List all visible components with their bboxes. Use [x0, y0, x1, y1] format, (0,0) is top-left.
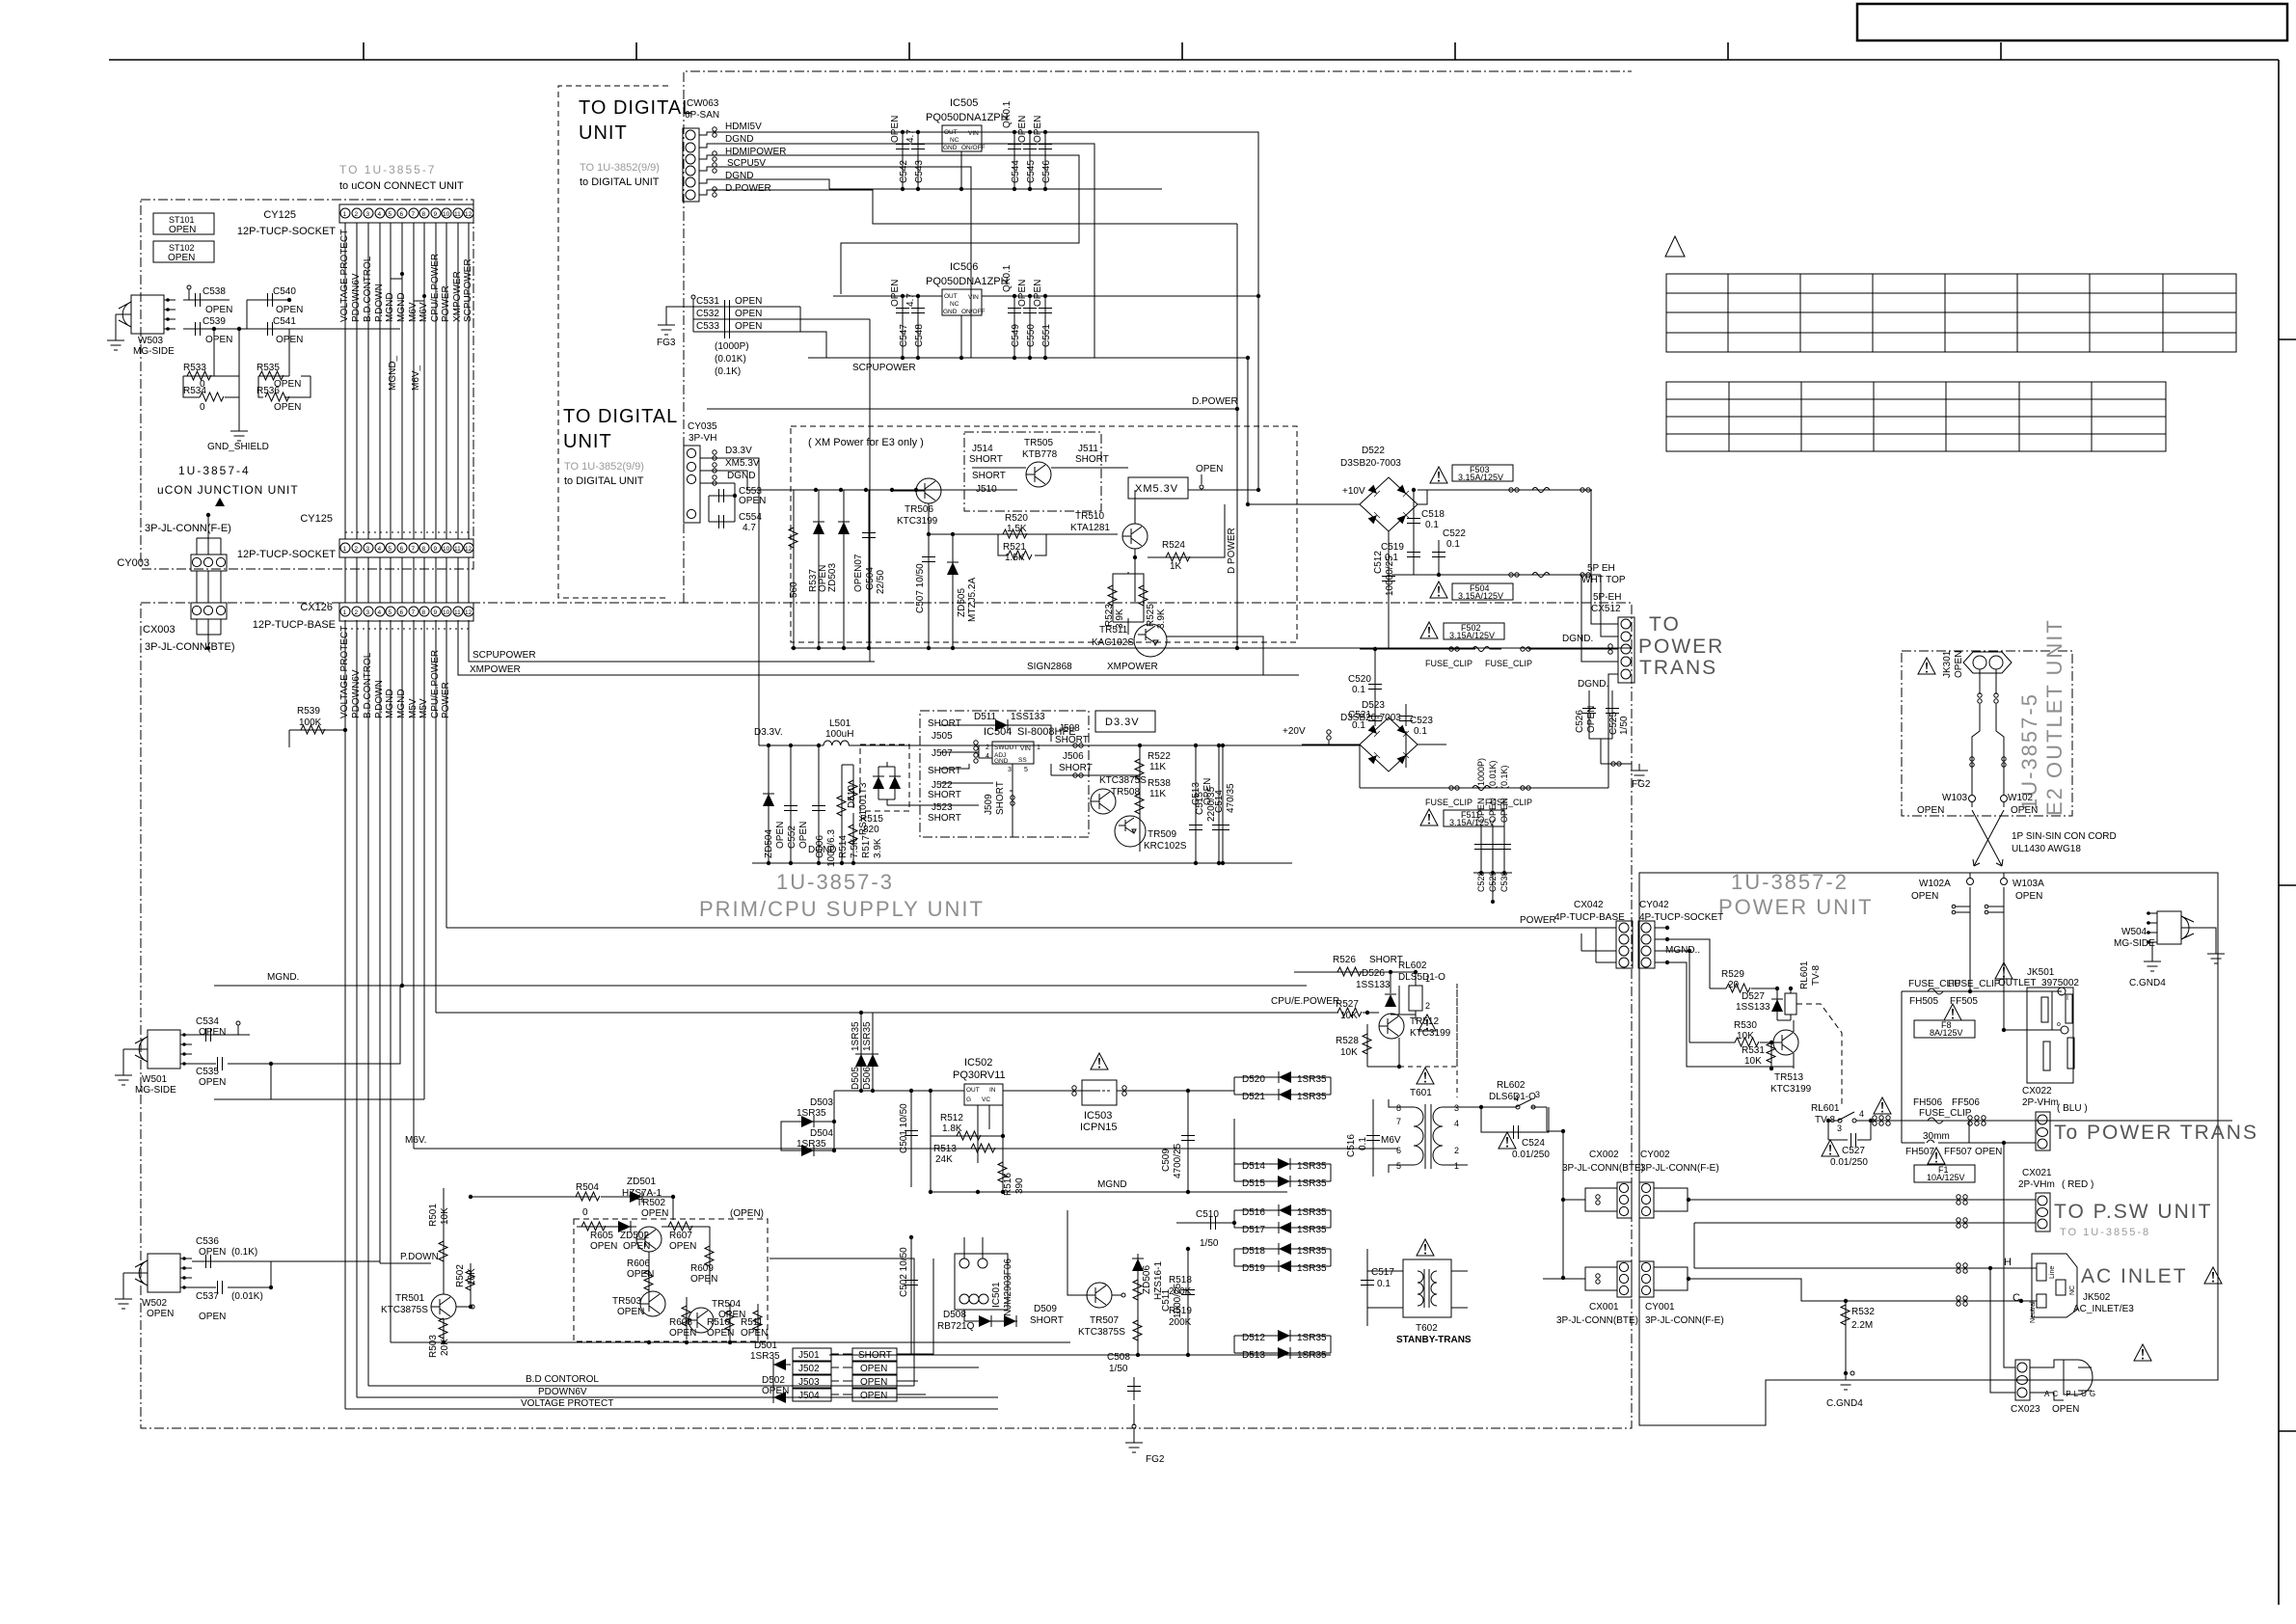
svg-text:1SR35: 1SR35: [851, 1021, 861, 1051]
wire MGND TR-cluster run: [391, 1341, 771, 1343]
svg-text:R530: R530: [1734, 1020, 1757, 1031]
svg-text:OPEN: OPEN: [274, 402, 301, 413]
wire HDMIPOWER row: [699, 155, 1079, 294]
svg-text:CPU/E.POWER: CPU/E.POWER: [1271, 996, 1339, 1007]
svg-text:GND: GND: [943, 145, 958, 151]
CX002 bracket wires: [1563, 1188, 1617, 1211]
boxed label D3.3V: [1095, 711, 1155, 732]
svg-text:(0.01K): (0.01K): [1488, 760, 1498, 789]
svg-text:30mm: 30mm: [1923, 1131, 1950, 1142]
connector CY125 top 12P-TUCP-SOCKET: [237, 204, 473, 237]
svg-text:6: 6: [1396, 1146, 1401, 1155]
svg-text:CY002: CY002: [1640, 1150, 1670, 1160]
fuse FH505 FF505 row: [1902, 990, 2062, 992]
svg-text:W102: W102: [2008, 793, 2034, 803]
svg-text:12: 12: [465, 546, 473, 553]
svg-text:OPEN: OPEN: [739, 496, 766, 506]
svg-text:HDMI5V: HDMI5V: [725, 122, 762, 132]
svg-text:Line: Line: [2049, 1266, 2056, 1279]
resistor R539 100K: [289, 730, 345, 747]
svg-text:VOLTAGE PROTECT: VOLTAGE PROTECT: [521, 1398, 613, 1409]
svg-text:CX022: CX022: [2022, 1086, 2052, 1096]
svg-text:C548: C548: [914, 324, 925, 347]
svg-text:4: 4: [1859, 1109, 1864, 1119]
AC inlet JK502: [2032, 1254, 2077, 1317]
svg-text:KAC102S: KAC102S: [1092, 637, 1134, 648]
svg-text:QK0.1: QK0.1: [1002, 264, 1013, 292]
svg-text:0.1: 0.1: [1352, 685, 1365, 695]
svg-text:OPEN: OPEN: [1499, 798, 1509, 823]
svg-text:R503: R503: [428, 1335, 439, 1358]
svg-text:GND: GND: [994, 758, 1009, 765]
svg-text:OPEN: OPEN: [1033, 116, 1043, 143]
regulator IC506: [926, 261, 1009, 358]
svg-text:OPEN: OPEN: [775, 822, 786, 849]
svg-text:C541: C541: [273, 316, 296, 327]
svg-text:RL602: RL602: [1497, 1080, 1526, 1091]
ground rail under IC505: [829, 188, 1162, 190]
svg-text:TR510: TR510: [1075, 511, 1104, 522]
svg-text:11: 11: [454, 211, 461, 218]
svg-text:MG-SIDE: MG-SIDE: [133, 346, 175, 357]
H wire to AC inlet: [1694, 1267, 2002, 1269]
svg-text:CX001: CX001: [1589, 1302, 1619, 1313]
svg-text:OUT: OUT: [966, 1087, 980, 1094]
svg-text:GND: GND: [943, 309, 958, 315]
svg-text:RL601: RL601: [1799, 961, 1810, 989]
svg-text:P.DOWN: P.DOWN: [400, 1252, 439, 1262]
connector pin numbers: [343, 211, 473, 218]
svg-text:OPEN: OPEN: [199, 1247, 226, 1258]
svg-text:8: 8: [422, 211, 426, 218]
fuse F1 10A/125V: [1928, 1148, 1945, 1164]
svg-text:1SR35: 1SR35: [1297, 1092, 1327, 1102]
svg-text:8A/125V: 8A/125V: [1930, 1028, 1963, 1038]
svg-text:TO: TO: [1649, 613, 1681, 636]
svg-text:( BLU ): ( BLU ): [2057, 1103, 2088, 1114]
svg-text:C533: C533: [696, 321, 719, 332]
resistor R536 OPEN: [258, 376, 311, 397]
svg-text:C524: C524: [1522, 1138, 1545, 1149]
svg-text:3.15A/125V: 3.15A/125V: [1449, 631, 1495, 640]
svg-text:POWER UNIT: POWER UNIT: [1718, 895, 1874, 919]
svg-text:1P SIN-SIN CON CORD: 1P SIN-SIN CON CORD: [2012, 831, 2117, 842]
svg-text:VIN: VIN: [968, 294, 979, 301]
svg-text:1U-3857-3: 1U-3857-3: [776, 870, 894, 894]
cap C524 0.01/250: [1499, 1132, 1516, 1149]
svg-text:IC504: IC504: [984, 726, 1012, 738]
svg-text:ICPN15: ICPN15: [1080, 1122, 1118, 1133]
svg-text:JK501: JK501: [2027, 967, 2055, 978]
svg-text:CPU/E.POWER: CPU/E.POWER: [430, 254, 441, 322]
svg-text:OPEN: OPEN: [860, 1377, 887, 1388]
svg-text:D503: D503: [810, 1097, 833, 1108]
svg-text:D511: D511: [974, 712, 997, 722]
svg-text:C523: C523: [1410, 716, 1433, 726]
svg-text:+20V: +20V: [1283, 726, 1306, 737]
svg-text:(OPEN): (OPEN): [730, 1208, 764, 1219]
svg-text:3P-VH: 3P-VH: [689, 433, 716, 444]
svg-text:(0.1K): (0.1K): [1499, 765, 1509, 789]
svg-text:R533: R533: [183, 363, 206, 373]
svg-text:RSX1001T3: RSX1001T3: [858, 782, 869, 835]
svg-text:UNIT: UNIT: [579, 122, 628, 144]
svg-text:KTC3875S: KTC3875S: [381, 1305, 428, 1315]
transistor TR511 KAC102S: [1134, 624, 1167, 657]
svg-text:J523: J523: [932, 802, 953, 813]
svg-text:390: 390: [1014, 1177, 1025, 1194]
svg-text:7: 7: [412, 546, 416, 553]
SIGN2868 / XMPOWER labels: [1106, 636, 1263, 675]
svg-text:C545: C545: [1026, 160, 1037, 183]
svg-text:TR505: TR505: [1024, 438, 1053, 448]
svg-text:SHORT: SHORT: [928, 718, 961, 729]
capacitor C541 OPEN: [268, 322, 273, 336]
page top border: [109, 59, 2279, 61]
svg-text:C540: C540: [273, 286, 296, 297]
svg-text:FUSE_CLIP: FUSE_CLIP: [1425, 798, 1472, 807]
wire B.D CONTOROL bottom run: [368, 1385, 914, 1387]
svg-text:TO 1U-3855-7: TO 1U-3855-7: [339, 163, 436, 176]
svg-text:TR509: TR509: [1148, 829, 1176, 840]
svg-text:TR513: TR513: [1774, 1072, 1803, 1083]
jj on rail: [1327, 730, 1331, 740]
connector pin numbers: [343, 546, 473, 553]
svg-text:M6V: M6V: [408, 302, 419, 322]
svg-text:D526: D526: [1362, 968, 1385, 979]
svg-text:10K: 10K: [1744, 1056, 1762, 1067]
svg-text:J502: J502: [798, 1364, 820, 1374]
svg-text:OPEN: OPEN: [860, 1391, 887, 1401]
svg-text:OPEN: OPEN: [2011, 805, 2038, 816]
dashed box D510 RSX1001T3: [860, 744, 909, 811]
svg-text:CX023: CX023: [2011, 1404, 2040, 1415]
svg-text:MTZJ5.2A: MTZJ5.2A: [967, 578, 978, 622]
svg-text:FUSE_CLIP: FUSE_CLIP: [1485, 659, 1532, 668]
wire into CX022 pin2: [1969, 1142, 2036, 1144]
svg-text:TO DIGITAL: TO DIGITAL: [563, 406, 678, 427]
svg-text:D510: D510: [847, 785, 857, 808]
wire XM5.3V from CY035: [700, 471, 791, 490]
svg-text:P.DOWN: P.DOWN: [374, 284, 385, 322]
svg-text:OPEN: OPEN: [735, 321, 762, 332]
capacitors C547 C548: [903, 296, 918, 358]
svg-text:OPEN: OPEN: [1488, 798, 1498, 823]
capacitors C544 C545 C546: [1014, 132, 1045, 189]
svg-text:J514: J514: [972, 444, 993, 454]
svg-text:DGND.: DGND.: [1578, 679, 1608, 690]
svg-text:TR501: TR501: [395, 1293, 424, 1304]
svg-text:(0.01K): (0.01K): [715, 354, 746, 365]
svg-text:R522: R522: [1148, 751, 1171, 762]
long bus drops from CX126: [345, 620, 446, 1409]
svg-text:7: 7: [1396, 1117, 1401, 1126]
svg-text:J505: J505: [932, 731, 953, 742]
wire MGND rail: [214, 985, 1307, 987]
svg-text:WHT TOP: WHT TOP: [1581, 575, 1626, 585]
svg-text:C536: C536: [196, 1236, 219, 1247]
left vertical link: [1562, 1131, 1564, 1280]
svg-text:3P-JL-CONN(BTE): 3P-JL-CONN(BTE): [145, 641, 235, 653]
svg-text:OPEN: OPEN: [590, 1241, 617, 1252]
svg-text:OPEN: OPEN: [168, 253, 195, 263]
svg-text:XM5.3V: XM5.3V: [725, 458, 760, 469]
wire bus 12 lines uCON: [345, 223, 469, 539]
svg-text:KTC3875S: KTC3875S: [1078, 1327, 1125, 1338]
svg-text:0.1: 0.1: [1385, 553, 1398, 563]
svg-text:OPEN: OPEN: [1911, 891, 1938, 902]
svg-text:KTC3199: KTC3199: [1770, 1084, 1812, 1095]
svg-text:DGND: DGND: [808, 845, 836, 855]
connector CX126 12P-TUCP-BASE: [253, 602, 473, 631]
capacitor C519 0.1 / C522 0.1: [1407, 553, 1420, 557]
svg-text:B.D.CONTROL: B.D.CONTROL: [363, 256, 373, 322]
svg-text:0.1: 0.1: [1414, 726, 1427, 737]
svg-text:JK502: JK502: [2083, 1292, 2111, 1303]
svg-text:OUT: OUT: [944, 129, 958, 136]
svg-text:OPEN: OPEN: [205, 335, 232, 345]
svg-text:TR503: TR503: [612, 1296, 641, 1307]
svg-text:SHORT: SHORT: [1075, 454, 1109, 465]
svg-text:IC505: IC505: [950, 97, 978, 109]
svg-text:C.GND4: C.GND4: [2129, 978, 2166, 988]
svg-text:1SR35: 1SR35: [1297, 1263, 1327, 1274]
svg-text:IC502: IC502: [964, 1057, 992, 1069]
cap C509 4700/25: [1161, 1143, 1183, 1178]
svg-text:6: 6: [400, 609, 404, 616]
svg-text:C519: C519: [1381, 542, 1404, 553]
svg-text:(0.01K): (0.01K): [231, 1291, 263, 1302]
svg-text:CY003: CY003: [117, 557, 149, 569]
transistor TR513 KTC3199: [1773, 1030, 1798, 1055]
svg-text:TV-8: TV-8: [1811, 964, 1822, 986]
svg-text:TO P.SW UNIT: TO P.SW UNIT: [2054, 1201, 2212, 1223]
svg-text:2: 2: [355, 211, 359, 218]
svg-text:R521: R521: [1003, 542, 1026, 553]
capacitor C501 10/50: [899, 1103, 909, 1153]
svg-text:10K: 10K: [1340, 1047, 1358, 1058]
svg-text:D516: D516: [1242, 1207, 1265, 1218]
svg-text:UNIT: UNIT: [563, 431, 612, 452]
svg-text:OPEN: OPEN: [199, 1077, 226, 1088]
svg-text:D509: D509: [1034, 1304, 1057, 1314]
svg-text:C512: C512: [1373, 551, 1384, 574]
svg-text:4: 4: [378, 609, 382, 616]
svg-text:C534: C534: [196, 1016, 219, 1027]
svg-text:10K: 10K: [440, 1207, 450, 1225]
svg-text:10A/125V: 10A/125V: [1927, 1173, 1965, 1182]
capacitor C507 10/50: [928, 534, 930, 648]
svg-text:RB721Q: RB721Q: [937, 1321, 975, 1332]
svg-text:TRANS: TRANS: [1639, 657, 1717, 679]
capacitor C540 OPEN: [247, 299, 289, 301]
svg-text:R514: R514: [838, 835, 849, 858]
svg-text:L501: L501: [829, 718, 851, 729]
wire PDOWN6V bottom run: [357, 1396, 998, 1398]
svg-text:POWER: POWER: [1520, 915, 1556, 926]
svg-text:R502: R502: [455, 1264, 466, 1287]
TO DIGITAL UNIT dashed box: [558, 86, 668, 598]
svg-text:FUSE_CLIP: FUSE_CLIP: [1919, 1108, 1972, 1119]
svg-text:OPEN: OPEN: [1033, 280, 1043, 307]
svg-text:G: G: [966, 1096, 971, 1103]
svg-text:1SR35: 1SR35: [797, 1139, 826, 1150]
svg-text:R606: R606: [627, 1259, 650, 1269]
svg-text:7: 7: [412, 609, 416, 616]
plug W503 MG-SIDE: [118, 295, 176, 334]
svg-text:SWOUT: SWOUT: [994, 744, 1017, 751]
plug W501 MG-SIDE: [134, 1030, 192, 1069]
svg-text:OPEN: OPEN: [741, 1328, 768, 1339]
wire D.POWER row: [699, 190, 1237, 224]
svg-text:10: 10: [443, 546, 450, 553]
svg-text:KTC3199: KTC3199: [897, 516, 938, 527]
svg-text:CX002: CX002: [1589, 1150, 1619, 1160]
svg-text:R520: R520: [1005, 513, 1028, 524]
30mm bypass FH507 FF507 OPEN: [1902, 1121, 1969, 1143]
svg-text:1: 1: [1454, 1161, 1459, 1171]
caps C513 OPEN C514 470/35: [1191, 778, 1236, 813]
svg-text:QK0.1: QK0.1: [1002, 100, 1013, 128]
svg-text:XMPOWER: XMPOWER: [1107, 662, 1158, 672]
dashed link to contact: [1796, 1004, 1842, 1105]
capacitor C512 10000/25: [1388, 531, 1390, 648]
svg-text:4700/25: 4700/25: [1173, 1143, 1183, 1178]
svg-text:OPEN: OPEN: [1476, 798, 1486, 823]
svg-text:C551: C551: [1041, 324, 1052, 347]
svg-text:Neutral: Neutral: [2030, 1301, 2037, 1323]
svg-text:KTC3199: KTC3199: [1410, 1028, 1451, 1039]
svg-text:4: 4: [1454, 1119, 1459, 1128]
resistor R535 OPEN: [258, 329, 311, 376]
svg-text:C502 10/50: C502 10/50: [899, 1247, 909, 1297]
svg-text:JK301: JK301: [1942, 650, 1953, 678]
svg-text:1: 1: [1425, 974, 1430, 984]
ST101: [153, 213, 214, 235]
page right border: [2278, 60, 2280, 1605]
svg-text:9: 9: [434, 546, 438, 553]
svg-text:AC PLUG: AC PLUG: [2044, 1390, 2098, 1398]
svg-text:PDOWN6V: PDOWN6V: [351, 273, 362, 322]
svg-text:3P-JL-CONN(BTE): 3P-JL-CONN(BTE): [1556, 1315, 1638, 1326]
svg-text:D POWER: D POWER: [1227, 528, 1237, 574]
svg-text:2: 2: [355, 546, 359, 553]
zener ZD506 HZS16-1: [1142, 1261, 1164, 1300]
svg-text:PDOWN6V: PDOWN6V: [538, 1387, 587, 1397]
svg-text:C552: C552: [787, 826, 797, 849]
svg-text:C544: C544: [1011, 160, 1021, 183]
svg-text:NJM2903F06: NJM2903F06: [1003, 1259, 1013, 1316]
wire jogs in bus: [391, 274, 424, 301]
wire to pin4/5: [1581, 575, 1618, 788]
connector CY125 bottom 12P-TUCP-SOCKET: [237, 513, 473, 560]
svg-text:OPEN: OPEN: [1017, 280, 1028, 307]
wire M6V second drop: [214, 1098, 424, 1100]
svg-text:3P-JL-CONN(BTE): 3P-JL-CONN(BTE): [1562, 1163, 1644, 1174]
jumpers J501-J504: [793, 1348, 897, 1401]
svg-text:J506: J506: [1063, 751, 1084, 762]
svg-text:GND_SHIELD: GND_SHIELD: [207, 442, 269, 452]
wire SCPU5V row: [699, 167, 971, 358]
svg-text:R510: R510: [707, 1317, 730, 1328]
X cross cords: [1972, 810, 2004, 866]
svg-text:2P-VHm: 2P-VHm: [2018, 1179, 2055, 1190]
svg-text:3: 3: [1837, 1123, 1842, 1133]
svg-text:to DIGITAL UNIT: to DIGITAL UNIT: [580, 176, 660, 188]
svg-text:SHORT: SHORT: [995, 781, 1006, 815]
zener ZD505 MTZJ5.2A: [952, 534, 954, 648]
svg-text:R538: R538: [1148, 778, 1171, 789]
stub wires CY125 to CX126: [197, 557, 469, 603]
svg-text:OPEN: OPEN: [669, 1328, 696, 1339]
transistor TR512 KTC3199: [1379, 1014, 1404, 1039]
svg-text:C515: C515: [1195, 792, 1205, 815]
CX001 bracket: [1543, 1267, 1617, 1290]
svg-text:5: 5: [1396, 1161, 1401, 1171]
svg-text:12: 12: [465, 609, 473, 616]
svg-text:TR511: TR511: [1099, 625, 1128, 636]
svg-text:OPEN: OPEN: [147, 1309, 174, 1319]
svg-text:1K: 1K: [1170, 561, 1182, 572]
svg-text:3P-JL-CONN(F-E): 3P-JL-CONN(F-E): [1645, 1315, 1724, 1326]
svg-text:4: 4: [986, 753, 989, 760]
svg-text:4.7: 4.7: [905, 129, 916, 143]
svg-text:FG3: FG3: [657, 338, 676, 348]
fuse F503: [1430, 467, 1447, 483]
svg-text:R536: R536: [257, 386, 280, 396]
capacitors C528 C529 C530 OPEN: [1473, 758, 1512, 904]
SCPUPOWER / XMPOWER branch wires: [458, 620, 1299, 675]
svg-text:TO DIGITAL: TO DIGITAL: [579, 97, 693, 119]
svg-text:PQ050DNA1ZPH: PQ050DNA1ZPH: [926, 112, 1009, 123]
svg-text:4P-TUCP-BASE: 4P-TUCP-BASE: [1554, 912, 1625, 923]
resistor R533 0: [183, 329, 239, 376]
svg-text:D3.3V: D3.3V: [725, 446, 752, 456]
svg-text:CX042: CX042: [1574, 900, 1604, 910]
wires into CX042: [1581, 928, 1616, 962]
svg-text:24K: 24K: [935, 1154, 953, 1165]
svg-text:uCON JUNCTION UNIT: uCON JUNCTION UNIT: [157, 483, 299, 497]
svg-text:1: 1: [343, 546, 347, 553]
svg-text:OPEN: OPEN: [735, 309, 762, 319]
CY001 bracket: [1654, 1267, 2021, 1301]
svg-text:4: 4: [378, 211, 382, 218]
svg-text:C504: C504: [865, 567, 876, 590]
ground at W503: [107, 334, 124, 350]
svg-text:DGND.: DGND.: [1562, 634, 1593, 644]
vertical feeds: [1970, 887, 2004, 1030]
svg-text:C535: C535: [196, 1067, 219, 1077]
svg-text:OPEN: OPEN: [276, 305, 303, 315]
svg-text:9: 9: [434, 609, 438, 616]
svg-text:W103: W103: [1942, 793, 1968, 803]
svg-text:D522: D522: [1362, 446, 1385, 456]
svg-text:CY042: CY042: [1639, 900, 1669, 910]
svg-text:VOLTAGE PROTECT: VOLTAGE PROTECT: [339, 230, 350, 322]
svg-text:1U-3857-4: 1U-3857-4: [178, 464, 251, 477]
wire P.DOWN run: [380, 1262, 426, 1264]
svg-text:CY125: CY125: [263, 209, 296, 221]
svg-text:OPEN: OPEN: [2015, 891, 2042, 902]
connector CX001 3P-JL-CONN(BTE): [1617, 1261, 1632, 1297]
svg-text:C527: C527: [1842, 1146, 1865, 1156]
bus pin labels below CX126 (rotated): [339, 626, 451, 718]
outlet JK501: [1995, 962, 2012, 979]
svg-text:ZD505: ZD505: [957, 588, 967, 617]
svg-text:R526: R526: [1333, 955, 1356, 965]
wire POWER run: [446, 927, 1616, 929]
svg-text:R534: R534: [183, 386, 206, 396]
